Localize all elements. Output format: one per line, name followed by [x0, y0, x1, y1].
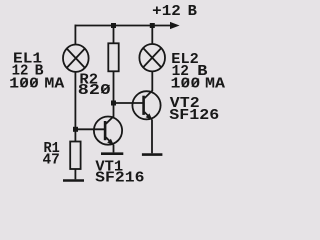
svg-text:MA: MA	[44, 77, 64, 93]
node junction rail-EL2	[150, 23, 155, 28]
wire rail to EL1	[74, 25, 76, 45]
node junction rail-R2	[111, 23, 116, 28]
ground under VT2	[142, 153, 163, 156]
wire EL1 bottom to node A	[74, 72, 76, 142]
wire VT1 emitter to ground	[113, 145, 115, 153]
wire rail to R2	[113, 26, 115, 44]
svg-text:820: 820	[78, 83, 111, 99]
svg-text:MA: MA	[205, 77, 225, 93]
svg-text:100: 100	[9, 77, 39, 93]
resistor R2	[108, 43, 118, 71]
svg-text:SF216: SF216	[95, 171, 144, 187]
svg-text:SF126: SF126	[169, 108, 219, 124]
wire top rail +12V	[75, 25, 171, 27]
slashed zeros	[21, 79, 199, 94]
wire R1 to ground	[74, 169, 76, 179]
transistor VT1	[94, 116, 122, 145]
node A junction	[73, 127, 78, 132]
lamp EL2	[139, 44, 165, 71]
node B junction	[111, 101, 116, 106]
wire R2 to node B to VT1 collector	[113, 71, 115, 117]
transistor VT2	[132, 91, 160, 120]
svg-text:100: 100	[171, 77, 201, 93]
resistor R1	[70, 142, 80, 170]
wire VT2 emitter to ground	[151, 119, 153, 153]
svg-text:B: B	[188, 4, 198, 20]
lamp EL1	[63, 45, 89, 72]
ground under VT1	[101, 152, 123, 155]
wire node B to VT2 base	[114, 102, 144, 104]
power arrow +12V	[170, 22, 180, 29]
wire EL2 to VT2 collector	[151, 71, 153, 91]
wire rail to EL2	[151, 26, 153, 45]
wire node A to VT1 base	[75, 128, 105, 130]
ground under R1	[63, 179, 84, 182]
svg-text:47: 47	[43, 152, 60, 168]
svg-text:+12: +12	[152, 4, 181, 20]
